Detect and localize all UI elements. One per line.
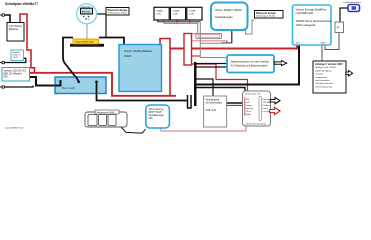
- svg-text:Victron Energy: Victron Energy: [149, 108, 165, 111]
- svg-text:100Ah: 100Ah: [157, 10, 164, 13]
- svg-text:Anhänger / Verteiler 230V: Anhänger / Verteiler 230V: [315, 63, 343, 66]
- svg-text:Solarladeregler: Solarladeregler: [149, 114, 165, 117]
- svg-text:-Kleinverbraucher: -Kleinverbraucher: [315, 85, 333, 88]
- svg-text:120A Ladegerät: 120A Ladegerät: [296, 23, 316, 27]
- svg-text:für Füllstände und Batteriezus: für Füllstände und Batteriezustand: [231, 65, 268, 68]
- svg-text:-230V Steckdose: -230V Steckdose: [315, 69, 332, 72]
- svg-text:100Ah: 100Ah: [124, 54, 132, 58]
- svg-text:12V: 12V: [296, 43, 300, 45]
- svg-text:Bus (-) 12V: Bus (-) 12V: [63, 87, 75, 90]
- svg-text:mit Rauminnenanzeige: mit Rauminnenanzeige: [246, 123, 267, 126]
- svg-text:Verbindung zu Handy: Verbindung zu Handy: [256, 16, 275, 18]
- svg-text:Batteriecomputer von oben Anze: Batteriecomputer von oben Anzeige: [231, 61, 270, 64]
- svg-text:Zelle: Zelle: [189, 14, 195, 16]
- svg-text:Verteilergerät: Verteilergerät: [206, 99, 220, 102]
- svg-text:Licht: Licht: [246, 101, 251, 104]
- svg-text:Victron LiFePo4 Batterie: Victron LiFePo4 Batterie: [124, 49, 153, 53]
- svg-text:Verbindung zu Handy: Verbindung zu Handy: [108, 12, 127, 14]
- svg-text:-mit Wasserkocher: -mit Wasserkocher: [315, 82, 333, 85]
- svg-text:TV etc: TV etc: [246, 110, 252, 113]
- svg-text:12V Std: 12V Std: [263, 101, 270, 104]
- svg-text:25A: 25A: [4, 75, 9, 78]
- svg-text:FI: FI: [337, 26, 340, 30]
- svg-text:15A: 15A: [149, 117, 154, 120]
- svg-text:Schaltplan eWoMo77: Schaltplan eWoMo77: [5, 2, 38, 6]
- svg-text:www.eWoMo77.de: www.eWoMo77.de: [5, 128, 24, 130]
- svg-text:Verbraucher 12V: Verbraucher 12V: [245, 93, 261, 96]
- svg-text:mit Sicherungen: mit Sicherungen: [206, 102, 223, 105]
- svg-text:12/12: 12/12: [13, 57, 19, 59]
- svg-text:Küche: Küche: [263, 108, 270, 110]
- svg-text:Solarpanele 300W: Solarpanele 300W: [97, 111, 116, 114]
- svg-text:Kühlbox: Kühlbox: [263, 105, 270, 107]
- svg-text:100Ah: 100Ah: [173, 10, 180, 13]
- svg-text:Batterie: Batterie: [9, 27, 18, 31]
- svg-text:Radio: Radio: [246, 114, 252, 116]
- svg-text:USB / 12V: USB / 12V: [206, 110, 217, 112]
- svg-text:-mit Fernsehen: -mit Fernsehen: [315, 79, 330, 82]
- svg-text:Votronic 1212-25 VCC: Votronic 1212-25 VCC: [4, 69, 27, 72]
- svg-text:Pumpe: Pumpe: [246, 105, 253, 107]
- svg-text:Zelle: Zelle: [157, 14, 163, 16]
- svg-text:-Anlage Trafo <400W: -Anlage Trafo <400W: [315, 66, 337, 69]
- svg-text:100Ah: 100Ah: [189, 10, 196, 13]
- svg-text:Bluetooth dongle: Bluetooth dongle: [108, 9, 128, 12]
- svg-text:-Ladegeräte: -Ladegeräte: [315, 76, 328, 79]
- svg-text:B2B 12V Wandler: B2B 12V Wandler: [4, 72, 22, 75]
- svg-text:Heizung: Heizung: [246, 108, 253, 110]
- svg-text:800 105: 800 105: [82, 11, 91, 13]
- svg-text:C12/3000-120: C12/3000-120: [296, 11, 314, 15]
- svg-text:-Drucker: -Drucker: [315, 73, 324, 76]
- svg-text:Smart SHUNT 500A: Smart SHUNT 500A: [76, 40, 95, 43]
- svg-text:MPPT 75/15: MPPT 75/15: [149, 112, 162, 114]
- svg-text:Solarladeregler: Solarladeregler: [215, 15, 233, 19]
- svg-text:Victron SMART 100/30: Victron SMART 100/30: [215, 8, 242, 12]
- svg-text:230V: 230V: [321, 43, 327, 45]
- svg-text:Bluetooth dongle: Bluetooth dongle: [256, 12, 276, 15]
- svg-text:Zelle: Zelle: [173, 14, 179, 16]
